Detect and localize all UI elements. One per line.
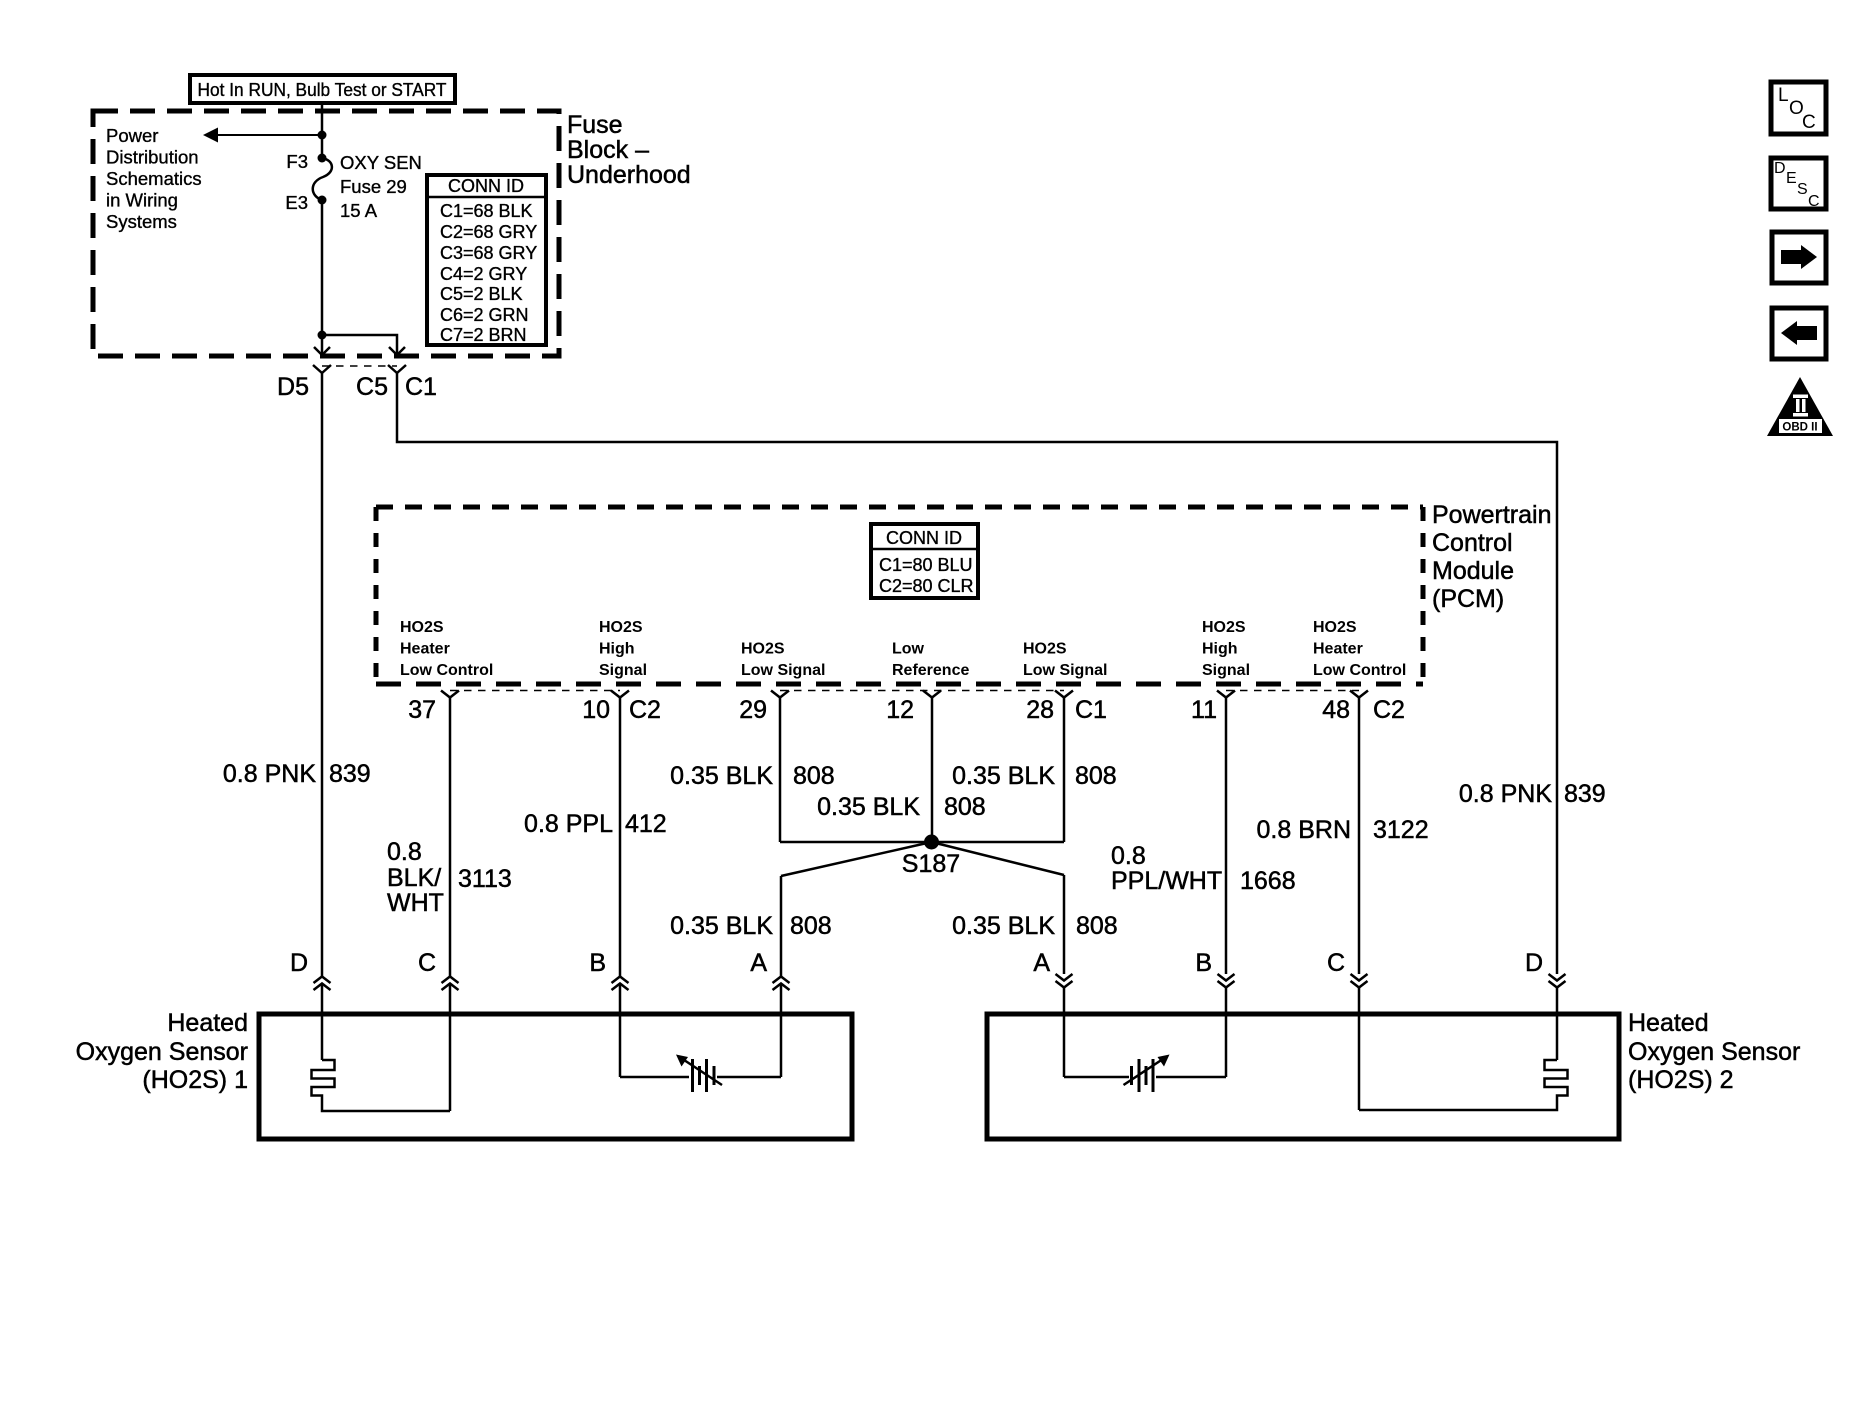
svg-text:D: D <box>1774 160 1786 177</box>
svg-text:412: 412 <box>625 810 667 838</box>
svg-text:C4=2 GRY: C4=2 GRY <box>440 264 527 284</box>
svg-text:Module: Module <box>1432 557 1514 585</box>
svg-text:0.35 BLK: 0.35 BLK <box>952 762 1055 790</box>
svg-text:0.8: 0.8 <box>387 838 422 866</box>
svg-text:D: D <box>290 949 308 977</box>
svg-text:839: 839 <box>329 760 371 788</box>
svg-text:0.8 BRN: 0.8 BRN <box>1257 816 1351 844</box>
svg-text:Signal: Signal <box>599 662 647 679</box>
svg-text:WHT: WHT <box>387 889 444 917</box>
svg-text:C5: C5 <box>356 373 388 401</box>
svg-text:C3=68 GRY: C3=68 GRY <box>440 243 537 263</box>
svg-text:Systems: Systems <box>106 211 177 232</box>
svg-text:839: 839 <box>1564 780 1606 808</box>
svg-text:C: C <box>1808 193 1820 210</box>
svg-text:808: 808 <box>1076 912 1118 940</box>
svg-text:0.35 BLK: 0.35 BLK <box>817 793 920 821</box>
svg-text:0.8 PNK: 0.8 PNK <box>1459 780 1552 808</box>
svg-text:C5=2 BLK: C5=2 BLK <box>440 284 523 304</box>
svg-text:A: A <box>1033 949 1050 977</box>
svg-text:B: B <box>589 949 606 977</box>
svg-text:in Wiring: in Wiring <box>106 190 178 211</box>
svg-text:808: 808 <box>944 793 986 821</box>
svg-text:48: 48 <box>1322 696 1350 724</box>
svg-text:HO2S: HO2S <box>1023 641 1067 658</box>
svg-text:High: High <box>1202 641 1238 658</box>
svg-text:Underhood: Underhood <box>567 161 691 189</box>
svg-text:HO2S: HO2S <box>400 619 444 636</box>
svg-text:Low Control: Low Control <box>1313 662 1406 679</box>
svg-text:C1=68 BLK: C1=68 BLK <box>440 201 533 221</box>
svg-text:Reference: Reference <box>892 662 969 679</box>
svg-text:Block –: Block – <box>567 136 649 164</box>
svg-text:OXY SEN: OXY SEN <box>340 152 422 173</box>
svg-text:Heater: Heater <box>400 641 450 658</box>
svg-text:HO2S: HO2S <box>1313 619 1357 636</box>
svg-text:CONN ID: CONN ID <box>448 176 524 196</box>
svg-text:Schematics: Schematics <box>106 168 202 189</box>
svg-text:29: 29 <box>739 696 767 724</box>
svg-text:12: 12 <box>886 696 914 724</box>
svg-text:(PCM): (PCM) <box>1432 585 1504 613</box>
svg-text:808: 808 <box>1075 762 1117 790</box>
svg-text:0.35 BLK: 0.35 BLK <box>670 912 773 940</box>
svg-text:Low Control: Low Control <box>400 662 493 679</box>
svg-text:C2=80 CLR: C2=80 CLR <box>879 576 974 596</box>
svg-text:Low Signal: Low Signal <box>1023 662 1107 679</box>
svg-text:37: 37 <box>408 696 436 724</box>
svg-text:0.8 PNK: 0.8 PNK <box>223 760 316 788</box>
svg-text:HO2S: HO2S <box>1202 619 1246 636</box>
svg-text:D: D <box>1525 949 1543 977</box>
svg-text:S: S <box>1797 181 1808 198</box>
svg-text:BLK/: BLK/ <box>387 864 441 892</box>
svg-text:28: 28 <box>1026 696 1054 724</box>
svg-text:0.8 PPL: 0.8 PPL <box>524 810 613 838</box>
svg-text:PPL/WHT: PPL/WHT <box>1111 867 1222 895</box>
svg-text:OBD II: OBD II <box>1782 422 1817 434</box>
svg-text:Low Signal: Low Signal <box>741 662 825 679</box>
svg-text:Control: Control <box>1432 529 1513 557</box>
svg-text:Low: Low <box>892 641 925 658</box>
svg-text:Distribution: Distribution <box>106 147 199 168</box>
svg-text:0.8: 0.8 <box>1111 842 1146 870</box>
svg-text:S187: S187 <box>902 850 960 878</box>
svg-text:Heated: Heated <box>1628 1009 1709 1037</box>
svg-text:C2: C2 <box>629 696 661 724</box>
svg-text:CONN ID: CONN ID <box>886 528 962 548</box>
svg-text:3113: 3113 <box>458 865 512 893</box>
svg-text:C2: C2 <box>1373 696 1405 724</box>
svg-text:A: A <box>750 949 767 977</box>
svg-text:3122: 3122 <box>1373 816 1429 844</box>
svg-text:Oxygen Sensor: Oxygen Sensor <box>1628 1038 1800 1066</box>
svg-text:Fuse 29: Fuse 29 <box>340 176 407 197</box>
svg-text:Signal: Signal <box>1202 662 1250 679</box>
svg-text:Heated: Heated <box>167 1009 248 1037</box>
svg-text:HO2S: HO2S <box>599 619 643 636</box>
svg-text:1668: 1668 <box>1240 867 1296 895</box>
svg-text:C: C <box>418 949 436 977</box>
svg-text:C1: C1 <box>1075 696 1107 724</box>
svg-text:F3: F3 <box>286 151 308 172</box>
svg-text:15 A: 15 A <box>340 200 378 221</box>
svg-text:Power: Power <box>106 125 158 146</box>
svg-text:E3: E3 <box>285 192 308 213</box>
svg-text:Oxygen Sensor: Oxygen Sensor <box>76 1038 248 1066</box>
svg-text:D5: D5 <box>277 373 309 401</box>
svg-text:C7=2 BRN: C7=2 BRN <box>440 325 527 345</box>
svg-text:HO2S: HO2S <box>741 641 785 658</box>
svg-text:808: 808 <box>790 912 832 940</box>
svg-text:Hot In RUN, Bulb Test or START: Hot In RUN, Bulb Test or START <box>198 79 447 100</box>
svg-text:C: C <box>1327 949 1345 977</box>
svg-text:808: 808 <box>793 762 835 790</box>
svg-text:0.35 BLK: 0.35 BLK <box>670 762 773 790</box>
svg-text:C2=68 GRY: C2=68 GRY <box>440 222 537 242</box>
svg-text:E: E <box>1786 170 1797 187</box>
svg-text:0.35 BLK: 0.35 BLK <box>952 912 1055 940</box>
svg-text:C: C <box>1802 112 1816 133</box>
svg-text:C1=80 BLU: C1=80 BLU <box>879 555 973 575</box>
svg-text:C6=2 GRN: C6=2 GRN <box>440 305 529 325</box>
svg-text:(HO2S) 1: (HO2S) 1 <box>142 1066 248 1094</box>
svg-text:High: High <box>599 641 635 658</box>
svg-text:(HO2S) 2: (HO2S) 2 <box>1628 1066 1734 1094</box>
svg-text:11: 11 <box>1191 696 1217 724</box>
svg-text:Fuse: Fuse <box>567 111 623 139</box>
svg-text:C1: C1 <box>405 373 437 401</box>
svg-text:10: 10 <box>582 696 610 724</box>
svg-text:B: B <box>1195 949 1212 977</box>
svg-text:L: L <box>1778 85 1789 106</box>
svg-text:Heater: Heater <box>1313 641 1363 658</box>
svg-text:Powertrain: Powertrain <box>1432 501 1552 529</box>
